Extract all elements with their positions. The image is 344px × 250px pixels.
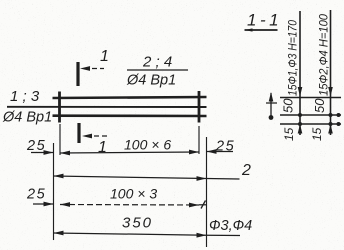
dimension line for bar 2 — [54, 174, 240, 181]
extension line v4 (right bar end) — [206, 137, 208, 247]
section cut mark 1 (bottom flag) — [79, 123, 107, 156]
label 1;3 Ø4 Вр1 — [2, 88, 52, 126]
dimension 50 (left) — [281, 98, 296, 113]
svg-text:50: 50 — [312, 98, 327, 113]
dimension 25 (top right) — [207, 139, 236, 155]
svg-text:Ø4 Вр1: Ø4 Вр1 — [126, 73, 176, 89]
longitudinal wire row 2 (section) — [280, 114, 341, 116]
svg-text:15Ф2,Ф4 Н=100: 15Ф2,Ф4 Н=100 — [319, 13, 331, 96]
bar 3 (bottom longitudinal wire) — [53, 114, 207, 117]
label 15Ф1,Ф3 Н=170 — [288, 19, 300, 96]
dimension 50 (right) — [312, 98, 327, 113]
svg-text:1: 1 — [98, 139, 107, 156]
extension line v2 (left cross wire) — [59, 124, 61, 155]
svg-text:2 ; 4: 2 ; 4 — [142, 54, 172, 71]
svg-text:50: 50 — [281, 98, 296, 113]
dimension 350 — [54, 215, 241, 238]
label Ф3,Ф4 — [209, 218, 252, 234]
dimension 25 (bottom left) — [26, 187, 54, 207]
svg-text:1 ; 3: 1 ; 3 — [10, 88, 40, 105]
svg-text:2: 2 — [241, 162, 251, 179]
section bar line L1 (wires Ф1,Ф3) — [298, 11, 303, 135]
section bar line L2 (wires Ф2,Ф4) — [328, 10, 333, 135]
section cut mark 1 (top flag) — [78, 48, 109, 86]
dimension 100x6 — [60, 137, 199, 156]
right cross wire tick — [198, 91, 201, 123]
dimension 25 (top left) — [26, 138, 54, 155]
svg-text:15Ф1,Ф3 Н=170: 15Ф1,Ф3 Н=170 — [288, 19, 300, 96]
svg-text:100 × 6: 100 × 6 — [124, 137, 171, 153]
left cross wire tick — [58, 92, 61, 123]
label 2 — [241, 162, 251, 179]
svg-text:1-1: 1-1 — [247, 11, 282, 30]
svg-text:15: 15 — [310, 127, 324, 141]
svg-text:Ø4 Вр1: Ø4 Вр1 — [2, 110, 52, 126]
left dimension mark (50 spacing pointer) — [266, 92, 277, 120]
wire dots row 3 — [298, 122, 341, 126]
svg-text:25: 25 — [26, 187, 46, 203]
svg-text:25: 25 — [26, 138, 46, 154]
extension line v1 (left bar end) — [53, 143, 55, 240]
dimension 100x3 — [60, 186, 207, 209]
label 2;4 Ø4 Вр1 — [126, 54, 188, 89]
svg-text:1: 1 — [100, 48, 109, 65]
label 15Ф2,Ф4 Н=100 — [319, 13, 331, 96]
dimension 15 (right) — [310, 127, 324, 141]
wire dots row 2 — [298, 113, 341, 117]
longitudinal wire row 3 (section) — [280, 123, 341, 125]
svg-text:100 × 3: 100 × 3 — [110, 186, 157, 202]
longitudinal wire row 1 (section) — [280, 97, 341, 99]
svg-text:Ф3,Ф4: Ф3,Ф4 — [209, 218, 252, 234]
extension line v3 (right cross wire) — [198, 126, 200, 154]
svg-text:15: 15 — [282, 127, 296, 141]
svg-text:350: 350 — [122, 215, 153, 232]
section title 1-1 — [245, 11, 283, 32]
bar 1 (top longitudinal wire) — [53, 97, 207, 98]
bar 2 (middle longitudinal wire, merged with label leader) — [7, 106, 207, 108]
dimension 15 (left) — [282, 127, 296, 141]
